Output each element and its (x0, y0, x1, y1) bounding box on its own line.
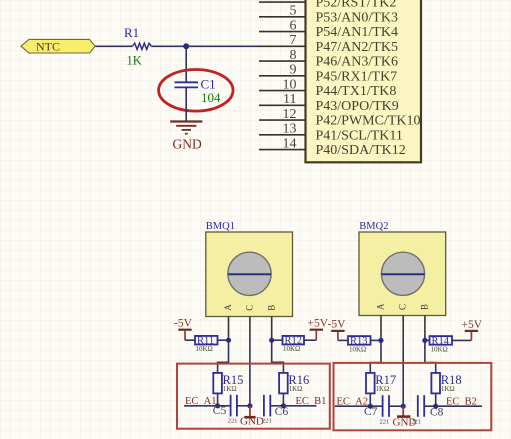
pin 6 (259, 31, 306, 33)
wire EC_A1 (184, 405, 230, 407)
svg-text:P44/TX1/TK8: P44/TX1/TK8 (316, 84, 397, 99)
svg-text:BMQ1: BMQ1 (206, 221, 235, 232)
port NTC (21, 39, 95, 53)
svg-text:13: 13 (283, 122, 297, 137)
svg-text:P46/AN3/TK6: P46/AN3/TK6 (316, 55, 398, 70)
svg-text:A: A (376, 303, 386, 310)
svg-text:GND: GND (393, 416, 417, 428)
BMQ2 diaphragm line (381, 273, 424, 275)
wire C6 to R16 node (270, 405, 283, 407)
power +5V (left) (308, 317, 329, 340)
wire EC_B2 (436, 405, 482, 407)
resistor R12 (283, 336, 305, 353)
svg-text:221: 221 (228, 418, 238, 425)
svg-text:14: 14 (283, 136, 297, 151)
junction node C2mid (401, 404, 406, 409)
ground GND3 (397, 406, 410, 416)
BMQ1 pin stub A (228, 317, 230, 341)
BMQ2 pin stub C (402, 316, 404, 341)
wire B1 to R12 (272, 339, 283, 341)
svg-text:1KΩ: 1KΩ (223, 385, 237, 393)
svg-text:6: 6 (290, 18, 297, 33)
resistor R16 (279, 373, 309, 394)
pin 4 (259, 1, 306, 3)
resistor R15 (213, 373, 243, 394)
wire R18 to EC_B2 (435, 393, 437, 406)
wire B2 to R14 (425, 339, 430, 341)
svg-text:NTC: NTC (36, 40, 60, 54)
wire R16 to EC_B1 (282, 393, 284, 405)
wire -5V to R11 (185, 339, 195, 341)
wire junction to C1 (185, 46, 187, 81)
svg-text:10KΩ: 10KΩ (196, 345, 213, 353)
svg-text:C: C (398, 304, 408, 310)
component BMQ1 body (206, 232, 293, 317)
BMQ1 buzzer circle (228, 252, 271, 295)
svg-text:10KΩ: 10KΩ (431, 345, 448, 353)
svg-text:12: 12 (283, 107, 297, 122)
wire EC_B1 (283, 405, 316, 407)
pin 8 (259, 60, 306, 62)
svg-text:7: 7 (290, 33, 297, 48)
svg-text:EC_B2: EC_B2 (446, 397, 477, 408)
component BMQ2 body (359, 232, 446, 316)
svg-text:GND: GND (173, 136, 202, 151)
highlight ellipse (159, 70, 233, 112)
svg-text:BMQ2: BMQ2 (359, 221, 388, 232)
svg-text:B: B (419, 304, 429, 310)
wire C7 to node C2 (389, 405, 403, 407)
junction node C1mid (247, 403, 252, 408)
svg-text:221: 221 (380, 419, 390, 426)
ground GND1 (170, 122, 202, 152)
BMQ1 pin stub B (271, 317, 273, 341)
svg-text:P42/PWMC/TK10: P42/PWMC/TK10 (316, 114, 421, 129)
junction node A2 (378, 338, 383, 343)
wire R11 to node A1 (218, 339, 229, 341)
wire A2 down to R17 (370, 340, 381, 373)
ground GND2 (244, 406, 255, 417)
pin 11 (259, 104, 306, 106)
capacitor C6 (264, 395, 270, 417)
svg-text:C5: C5 (213, 405, 227, 417)
BMQ1 diaphragm line (228, 273, 271, 275)
pin 14 (259, 149, 306, 151)
junction node B1 (269, 338, 274, 343)
wire pin C2 down (402, 340, 404, 406)
resistor R1 (132, 43, 151, 49)
pin 10 (259, 90, 306, 92)
junction R15/EC_A1 (215, 403, 220, 408)
svg-text:11: 11 (283, 92, 296, 107)
pin 9 (259, 75, 306, 77)
resistor R13 (348, 336, 371, 354)
svg-text:10KΩ: 10KΩ (349, 345, 366, 353)
capacitor C7 (383, 395, 389, 417)
wire R12 to +5V (304, 339, 316, 341)
svg-text:1K: 1K (127, 54, 142, 68)
wire pin C down (249, 340, 251, 406)
BMQ2 pin stub A (380, 316, 382, 341)
svg-text:10KΩ: 10KΩ (283, 345, 300, 353)
junction node A1 (226, 338, 231, 343)
wire NTC to R1 (96, 45, 133, 47)
svg-text:-5V: -5V (174, 317, 193, 329)
wire R14 to +5V (452, 339, 471, 341)
svg-text:C7: C7 (364, 406, 378, 418)
svg-text:10: 10 (283, 77, 297, 92)
resistor R11 (195, 336, 218, 353)
junction R18/EC_B2 (433, 404, 438, 409)
wire A1 down to R15 (218, 340, 229, 373)
resistor R18 (431, 373, 461, 394)
wire R17 to EC_A2 net (369, 393, 371, 406)
wire B1 node to R16 (272, 340, 284, 373)
svg-text:P53/AN0/TK3: P53/AN0/TK3 (316, 10, 398, 25)
svg-text:EC_A1: EC_A1 (185, 396, 217, 407)
svg-text:P40/SDA/TK12: P40/SDA/TK12 (316, 143, 406, 158)
wire R13 to node A2 (371, 339, 382, 341)
junction R17/EC_A2 (368, 404, 373, 409)
power -5V (left) (174, 317, 193, 340)
resistor R14 (430, 336, 453, 354)
svg-text:9: 9 (290, 63, 297, 78)
capacitor C1 (175, 82, 199, 87)
svg-text:5: 5 (290, 4, 297, 19)
pin 7 (259, 45, 306, 47)
wire C5 to node C (237, 405, 250, 407)
junction node (183, 43, 189, 49)
svg-text:P54/AN1/TK4: P54/AN1/TK4 (316, 25, 398, 40)
BMQ1 pin stub C (249, 317, 251, 341)
svg-text:1KΩ: 1KΩ (441, 385, 455, 393)
svg-text:1KΩ: 1KΩ (376, 385, 390, 393)
svg-text:-5V: -5V (328, 319, 347, 331)
BMQ2 pin stub B (424, 316, 426, 341)
wire R1 to pin7 (152, 45, 260, 47)
svg-text:P41/SCL/TK11: P41/SCL/TK11 (316, 128, 403, 143)
svg-text:P45/RX1/TK7: P45/RX1/TK7 (316, 69, 398, 84)
power +5V (right) (462, 319, 483, 340)
svg-text:B: B (266, 305, 276, 311)
red group box left (177, 364, 330, 429)
BMQ2 buzzer circle (381, 252, 424, 295)
svg-text:R1: R1 (124, 25, 139, 40)
svg-text:C6: C6 (275, 406, 289, 418)
svg-text:GND: GND (240, 416, 264, 428)
wire C8 to R18 node (424, 405, 436, 407)
pin 12 (259, 119, 306, 121)
svg-text:+5V: +5V (462, 319, 483, 331)
power -5V (right) (328, 319, 347, 341)
red group box right (334, 363, 492, 430)
capacitor C5 (231, 395, 237, 417)
wire B2 node to R18 (425, 340, 436, 373)
svg-text:C: C (245, 305, 255, 311)
svg-text:+5V: +5V (308, 317, 329, 329)
svg-text:1KΩ: 1KΩ (289, 385, 303, 393)
resistor R17 (366, 373, 396, 394)
IC U1 body (306, 0, 422, 162)
wire R15 to EC_A1 net (217, 393, 219, 405)
wire EC_A2 (335, 405, 383, 407)
junction R16/EC_B1 (281, 403, 286, 408)
pin 5 (259, 16, 306, 18)
svg-text:P52/RST/TK2: P52/RST/TK2 (316, 0, 397, 11)
svg-text:P43/OPO/TK9: P43/OPO/TK9 (316, 99, 399, 114)
pin 13 (259, 134, 306, 136)
svg-text:8: 8 (290, 48, 297, 63)
wire C1 to GND (185, 87, 187, 120)
svg-text:A: A (223, 304, 233, 311)
svg-text:104: 104 (201, 90, 221, 105)
svg-text:P47/AN2/TK5: P47/AN2/TK5 (316, 40, 398, 55)
capacitor C8 (418, 395, 424, 417)
svg-text:EC_B1: EC_B1 (296, 396, 327, 407)
junction node B2 (422, 338, 427, 343)
wire -5V to R13 (338, 339, 348, 341)
